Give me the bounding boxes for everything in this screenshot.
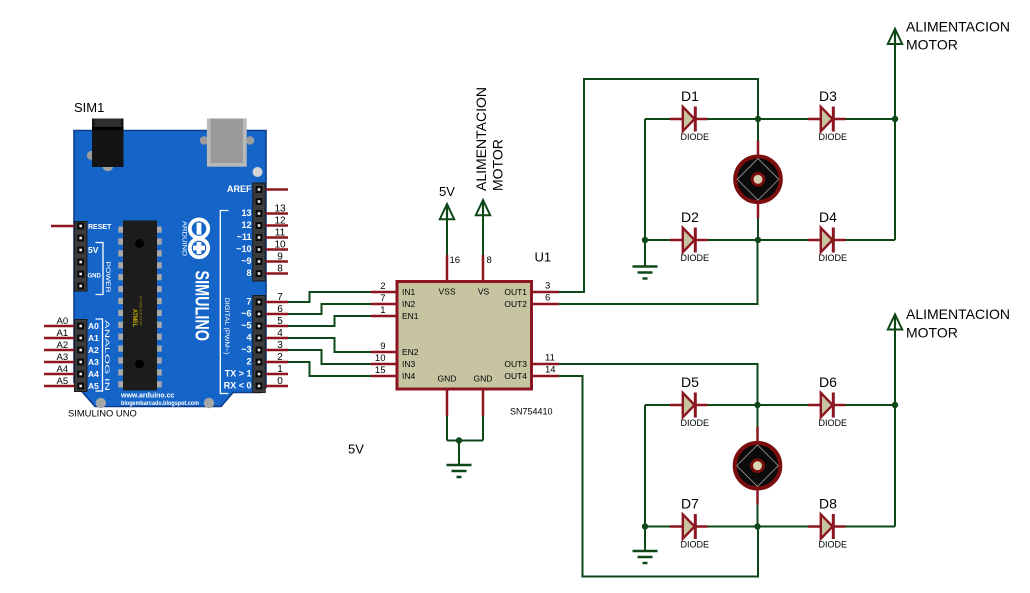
svg-text:6: 6: [545, 293, 550, 304]
svg-text:DIODE: DIODE: [681, 540, 710, 550]
svg-text:AREF: AREF: [227, 184, 252, 194]
svg-text:DIODE: DIODE: [819, 540, 848, 550]
svg-text:4: 4: [246, 333, 251, 343]
svg-text:6: 6: [277, 304, 283, 315]
svg-text:8: 8: [277, 264, 283, 275]
svg-text:D3: D3: [819, 88, 837, 104]
svg-text:12: 12: [274, 216, 286, 227]
svg-text:5V: 5V: [348, 442, 364, 457]
svg-text:2: 2: [246, 357, 251, 367]
svg-text:A2: A2: [56, 340, 68, 351]
svg-text:DIODE: DIODE: [819, 253, 848, 263]
svg-text:EN1: EN1: [402, 311, 419, 321]
svg-text:OUT1: OUT1: [504, 287, 527, 297]
svg-text:A4: A4: [56, 364, 68, 375]
svg-text:11: 11: [275, 228, 286, 239]
svg-text:SIMULINO UNO: SIMULINO UNO: [68, 408, 137, 419]
svg-text:GND: GND: [88, 274, 102, 280]
svg-text:ALIMENTACION: ALIMENTACION: [473, 87, 489, 191]
svg-text:OUT2: OUT2: [504, 299, 527, 309]
svg-text:D2: D2: [681, 209, 699, 225]
svg-text:ATMEGA328P: ATMEGA328P: [139, 296, 144, 326]
svg-text:A0: A0: [88, 321, 99, 331]
svg-text:3: 3: [545, 281, 550, 292]
svg-text:7: 7: [246, 297, 251, 307]
svg-text:DIODE: DIODE: [819, 418, 848, 428]
svg-text:OUT4: OUT4: [504, 371, 527, 381]
svg-text:~6: ~6: [241, 309, 251, 319]
svg-text:13: 13: [274, 204, 286, 215]
svg-text:0: 0: [277, 376, 283, 387]
svg-text:10: 10: [274, 240, 286, 251]
svg-text:10: 10: [375, 353, 386, 364]
svg-text:A3: A3: [56, 352, 68, 363]
svg-text:D1: D1: [681, 88, 699, 104]
svg-text:SN754410: SN754410: [510, 407, 553, 417]
svg-text:12: 12: [241, 220, 251, 230]
svg-text:D8: D8: [819, 496, 837, 512]
svg-text:RESET: RESET: [88, 224, 112, 231]
svg-text:IN3: IN3: [402, 359, 416, 369]
svg-text:1: 1: [277, 364, 283, 375]
svg-text:~3: ~3: [241, 345, 251, 355]
svg-text:ALIMENTACION: ALIMENTACION: [906, 19, 1010, 35]
svg-text:9: 9: [277, 252, 283, 263]
svg-text:D5: D5: [681, 374, 699, 390]
svg-text:A1: A1: [56, 328, 68, 339]
svg-text:1: 1: [380, 305, 385, 316]
svg-text:~10: ~10: [236, 244, 251, 254]
svg-text:IN4: IN4: [402, 371, 416, 381]
svg-text:SIMULINO: SIMULINO: [191, 271, 213, 342]
svg-text:3: 3: [277, 340, 283, 351]
svg-text:A5: A5: [56, 376, 68, 387]
svg-text:2: 2: [380, 281, 385, 292]
svg-text:GND: GND: [438, 374, 457, 384]
svg-text:7: 7: [277, 292, 283, 303]
svg-text:A0: A0: [56, 316, 68, 327]
svg-text:MOTOR: MOTOR: [490, 139, 506, 191]
svg-text:GND: GND: [474, 374, 493, 384]
svg-text:A4: A4: [88, 369, 99, 379]
svg-text:4: 4: [277, 328, 283, 339]
svg-text:ALIMENTACION: ALIMENTACION: [906, 306, 1010, 322]
svg-text:MOTOR: MOTOR: [906, 325, 958, 341]
svg-text:DIODE: DIODE: [681, 132, 710, 142]
svg-text:D6: D6: [819, 374, 837, 390]
svg-text:VSS: VSS: [438, 287, 455, 297]
svg-text:2: 2: [277, 352, 283, 363]
svg-text:IN2: IN2: [402, 299, 416, 309]
svg-text:ARDUINO: ARDUINO: [181, 221, 188, 256]
svg-text:9: 9: [380, 341, 385, 352]
svg-text:~9: ~9: [241, 256, 251, 266]
svg-text:15: 15: [375, 365, 386, 376]
svg-text:ATMEL: ATMEL: [131, 309, 137, 327]
svg-text:DIODE: DIODE: [819, 132, 848, 142]
svg-text:EN2: EN2: [402, 347, 419, 357]
svg-text:RX < 0: RX < 0: [224, 381, 252, 391]
svg-text:A5: A5: [88, 381, 99, 391]
svg-text:DIODE: DIODE: [681, 418, 710, 428]
svg-text:DIODE: DIODE: [681, 253, 710, 263]
svg-text:A3: A3: [88, 357, 99, 367]
svg-text:VS: VS: [478, 287, 490, 297]
svg-text:5V: 5V: [439, 184, 455, 199]
svg-text:11: 11: [545, 353, 555, 364]
svg-text:8: 8: [246, 268, 251, 278]
svg-text:D4: D4: [819, 209, 837, 225]
svg-text:ANALOG IN: ANALOG IN: [103, 320, 110, 391]
svg-text:8: 8: [487, 255, 492, 266]
svg-text:D7: D7: [681, 496, 699, 512]
svg-text:TX > 1: TX > 1: [225, 369, 252, 379]
svg-text:POWER: POWER: [104, 262, 111, 293]
svg-text:5V: 5V: [88, 245, 99, 255]
svg-text:~11: ~11: [237, 232, 252, 242]
svg-text:IN1: IN1: [402, 287, 416, 297]
svg-text:~5: ~5: [241, 321, 251, 331]
svg-text:14: 14: [545, 365, 556, 376]
svg-text:MOTOR: MOTOR: [906, 37, 958, 53]
svg-text:blogembarcado.blogspot.com: blogembarcado.blogspot.com: [121, 401, 199, 407]
svg-text:SIM1: SIM1: [74, 100, 104, 115]
svg-text:16: 16: [450, 255, 461, 266]
svg-text:A2: A2: [88, 345, 99, 355]
svg-text:OUT3: OUT3: [504, 359, 527, 369]
svg-text:A1: A1: [88, 333, 99, 343]
svg-text:U1: U1: [535, 250, 552, 265]
svg-text:DIGITAL (PWM~): DIGITAL (PWM~): [223, 298, 230, 355]
svg-text:www.arduino.cc: www.arduino.cc: [120, 393, 175, 400]
svg-text:5: 5: [277, 316, 283, 327]
svg-text:7: 7: [380, 293, 385, 304]
svg-text:13: 13: [241, 208, 251, 218]
